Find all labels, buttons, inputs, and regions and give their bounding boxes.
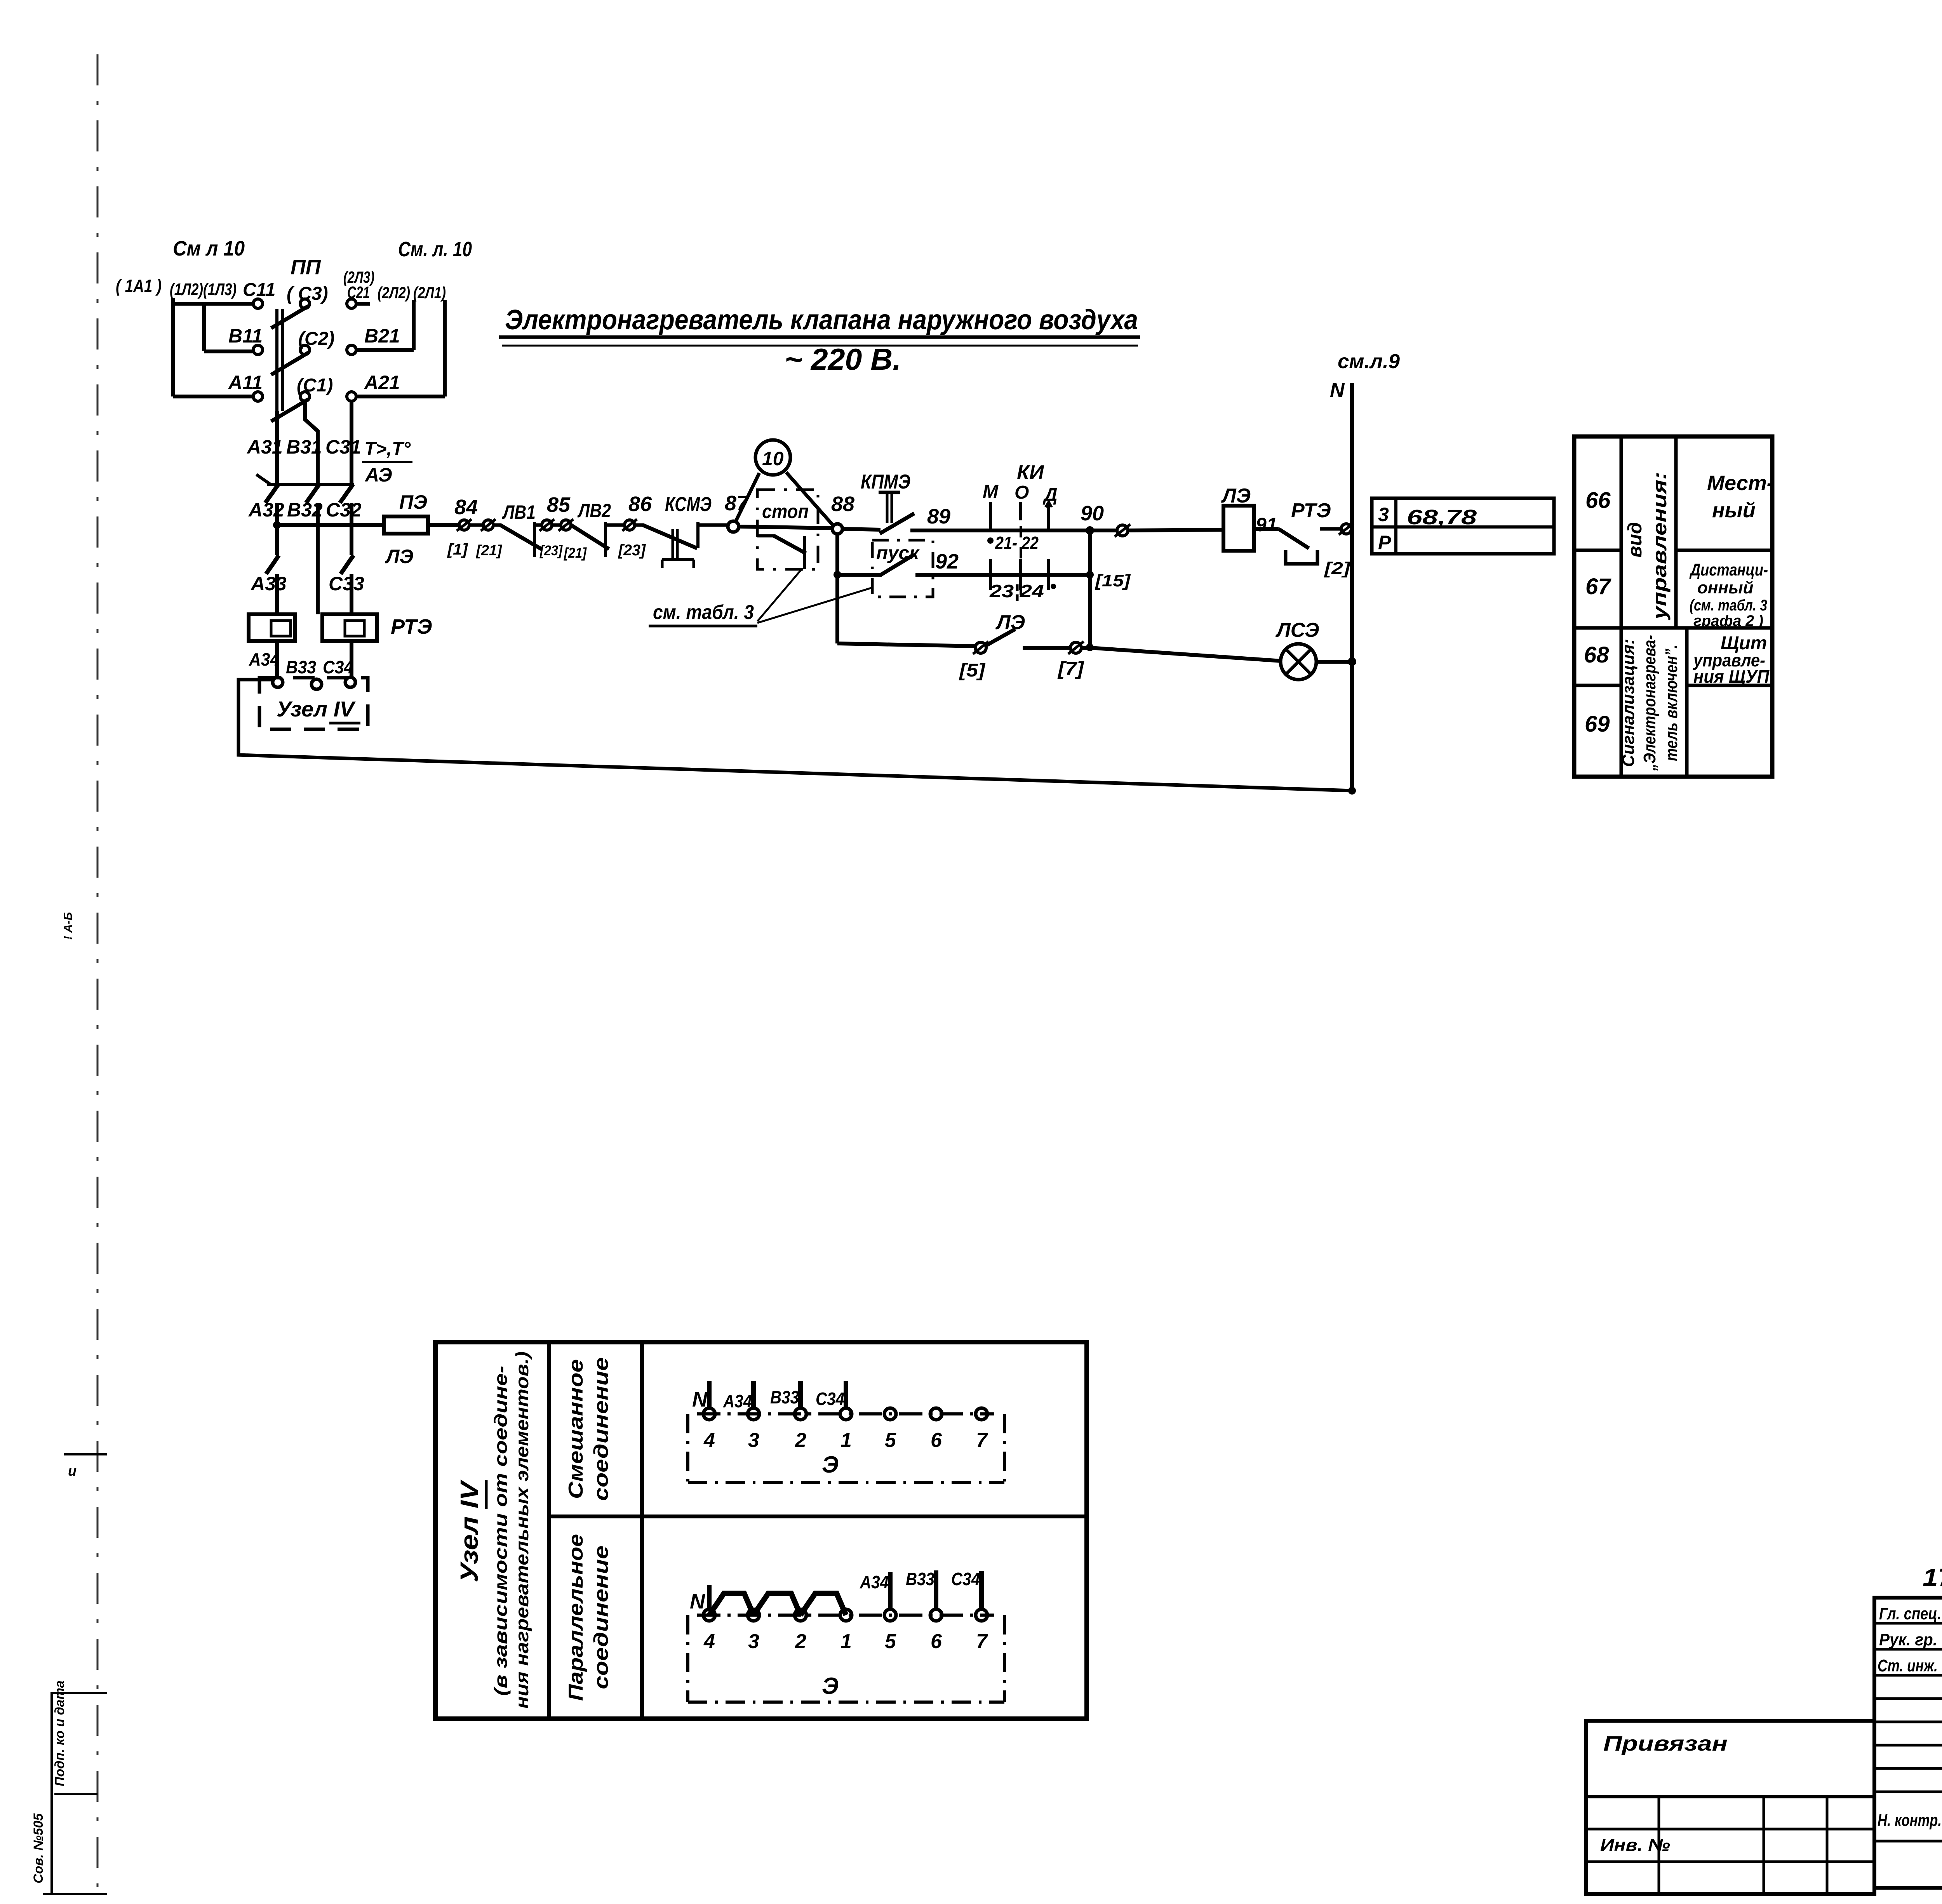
svg-text:А34: А34	[723, 1391, 752, 1411]
svg-text:онный: онный	[1697, 578, 1754, 597]
svg-text:~ 220 В.: ~ 220 В.	[785, 342, 901, 376]
svg-text:66: 66	[1585, 488, 1611, 513]
svg-text:М: М	[983, 482, 999, 502]
svg-text:N: N	[690, 1590, 705, 1613]
svg-text:А34: А34	[860, 1572, 889, 1592]
svg-text:85: 85	[547, 493, 571, 516]
svg-text:Параллельное: Параллельное	[565, 1534, 587, 1701]
svg-text:О: О	[1015, 482, 1029, 503]
svg-text:5: 5	[885, 1630, 896, 1653]
svg-text:Сигнализация:: Сигнализация:	[1619, 639, 1638, 767]
svg-text:[23]: [23]	[539, 543, 563, 558]
svg-text:(2Л1): (2Л1)	[413, 283, 446, 302]
svg-text:С34: С34	[323, 657, 353, 677]
svg-text:стоп: стоп	[762, 501, 809, 522]
svg-text:А34: А34	[249, 649, 279, 669]
svg-text:91: 91	[1256, 514, 1277, 536]
svg-text:( 1А1 ): ( 1А1 )	[116, 276, 162, 296]
svg-text:(см. табл. 3: (см. табл. 3	[1690, 597, 1767, 614]
svg-text:ЛВ2: ЛВ2	[577, 500, 611, 522]
svg-text:Привязан: Привязан	[1603, 1732, 1728, 1755]
svg-text:тель включен”.: тель включен”.	[1662, 645, 1681, 761]
svg-text:ЛВ1: ЛВ1	[502, 501, 536, 523]
svg-text:67: 67	[1585, 574, 1611, 599]
svg-text:89: 89	[927, 505, 950, 528]
svg-text:Т>,Т°: Т>,Т°	[364, 439, 411, 459]
svg-text:[1]: [1]	[447, 541, 468, 558]
svg-text:3: 3	[748, 1630, 759, 1653]
svg-text:3: 3	[748, 1429, 759, 1452]
svg-text:[2]: [2]	[1324, 559, 1351, 578]
svg-text:Э: Э	[822, 1673, 839, 1699]
svg-text:В33: В33	[770, 1387, 799, 1407]
svg-text:Гл. спец.: Гл. спец.	[1879, 1604, 1941, 1623]
svg-text:В33: В33	[286, 657, 316, 677]
svg-text:Электронагреватель клапана: Электронагреватель клапана наружного воз…	[505, 304, 1138, 336]
svg-text:4: 4	[703, 1630, 715, 1653]
svg-text:2: 2	[795, 1630, 806, 1653]
svg-text:С31: С31	[325, 436, 361, 458]
svg-text:Подп. ко и дата: Подп. ко и дата	[52, 1680, 67, 1786]
svg-text:Э: Э	[822, 1452, 839, 1478]
svg-text:А33: А33	[250, 573, 287, 595]
svg-text:10: 10	[762, 448, 784, 469]
svg-text:[23]: [23]	[618, 542, 646, 559]
svg-text:2: 2	[795, 1429, 806, 1452]
svg-text:Дистанци-: Дистанци-	[1689, 560, 1768, 579]
svg-text:пуск: пуск	[876, 543, 920, 563]
svg-text:68,78: 68,78	[1407, 506, 1477, 529]
svg-text:6: 6	[931, 1429, 942, 1452]
svg-text:АЭ: АЭ	[364, 464, 392, 486]
svg-text:(1Л2)(1Л3): (1Л2)(1Л3)	[170, 280, 237, 299]
svg-text:КПМЭ: КПМЭ	[861, 471, 910, 493]
svg-text:А21: А21	[364, 372, 400, 393]
svg-text:69: 69	[1585, 711, 1610, 737]
svg-text:РТЭ: РТЭ	[1291, 499, 1331, 522]
svg-text:Р: Р	[1378, 532, 1391, 553]
svg-text:С33: С33	[329, 573, 364, 595]
svg-text:ЛСЭ: ЛСЭ	[1275, 619, 1319, 642]
svg-text:84: 84	[454, 496, 478, 519]
svg-text:Ст. инж.: Ст. инж.	[1878, 1656, 1938, 1675]
svg-text:В33: В33	[906, 1569, 934, 1589]
svg-text:В21: В21	[364, 325, 400, 347]
svg-text:С34: С34	[816, 1389, 844, 1409]
svg-text:и: и	[68, 1463, 77, 1479]
svg-text:90: 90	[1081, 502, 1104, 525]
svg-text:соединение: соединение	[590, 1357, 613, 1501]
svg-text:КСМЭ: КСМЭ	[665, 493, 712, 516]
svg-text:А11: А11	[228, 372, 263, 393]
svg-text:Сов. №505: Сов. №505	[31, 1813, 46, 1883]
svg-text:[21]: [21]	[476, 543, 502, 559]
svg-text:ПП: ПП	[291, 256, 321, 279]
svg-text:Узел IV: Узел IV	[455, 1479, 483, 1582]
svg-text:Узел IV: Узел IV	[277, 697, 356, 721]
svg-text:88: 88	[831, 492, 854, 516]
svg-text:ЛЭ: ЛЭ	[385, 546, 413, 567]
svg-text:вид: вид	[1624, 522, 1646, 558]
svg-text:см.л.9: см.л.9	[1338, 350, 1400, 373]
svg-text:„Электронагрева-: „Электронагрева-	[1640, 635, 1659, 771]
svg-text:В11: В11	[228, 325, 263, 347]
svg-text:1: 1	[840, 1429, 852, 1452]
svg-text:N: N	[1330, 379, 1345, 402]
svg-text:5: 5	[885, 1429, 896, 1452]
svg-text:[21]: [21]	[564, 545, 587, 561]
svg-text:см. табл. 3: см. табл. 3	[653, 601, 754, 624]
svg-text:4: 4	[703, 1429, 715, 1452]
svg-text:соединение: соединение	[590, 1546, 613, 1689]
svg-text:См. л. 10: См. л. 10	[398, 238, 472, 261]
svg-text:6: 6	[931, 1630, 942, 1653]
svg-text:С34: С34	[951, 1569, 980, 1589]
svg-text:Смешанное: Смешанное	[565, 1359, 587, 1499]
svg-text:Н. контр.: Н. контр.	[1878, 1811, 1942, 1830]
svg-text:17333-15: 17333-15	[1923, 1563, 1942, 1591]
svg-text:(в зависимости от соедине-: (в зависимости от соедине-	[491, 1366, 511, 1696]
svg-text:[15]: [15]	[1095, 571, 1131, 590]
svg-text:ния ЩУП: ния ЩУП	[1693, 666, 1770, 687]
svg-text:Рук. гр.: Рук. гр.	[1879, 1630, 1937, 1649]
svg-text:21- 22: 21- 22	[995, 533, 1039, 553]
svg-text:С11: С11	[243, 280, 276, 300]
svg-text:С32: С32	[326, 499, 362, 521]
svg-text:Мест-: Мест-	[1707, 471, 1774, 495]
svg-text:См л 10: См л 10	[173, 237, 245, 260]
svg-text:! А-Б: ! А-Б	[62, 912, 75, 940]
svg-text:23¦24: 23¦24	[989, 581, 1044, 601]
svg-text:[5]: [5]	[959, 660, 986, 681]
svg-text:3: 3	[1378, 504, 1389, 525]
svg-text:ный: ный	[1712, 499, 1756, 522]
svg-text:ПЭ: ПЭ	[399, 491, 427, 513]
svg-text:1: 1	[840, 1630, 852, 1653]
svg-text:Инв. №: Инв. №	[1600, 1836, 1670, 1855]
svg-text:(2Л2): (2Л2)	[378, 283, 410, 302]
svg-text:графа 2 ): графа 2 )	[1693, 612, 1763, 629]
svg-text:7: 7	[976, 1429, 988, 1452]
svg-text:68: 68	[1584, 642, 1609, 668]
svg-text:КИ: КИ	[1017, 461, 1044, 484]
svg-text:[7]: [7]	[1057, 659, 1085, 679]
svg-text:РТЭ: РТЭ	[391, 615, 432, 638]
svg-text:86: 86	[628, 492, 652, 516]
svg-text:7: 7	[976, 1630, 988, 1653]
svg-text:92: 92	[935, 550, 959, 573]
svg-text:управления:: управления:	[1649, 472, 1671, 621]
svg-text:ния нагревательных элементов.): ния нагревательных элементов.)	[512, 1351, 532, 1709]
